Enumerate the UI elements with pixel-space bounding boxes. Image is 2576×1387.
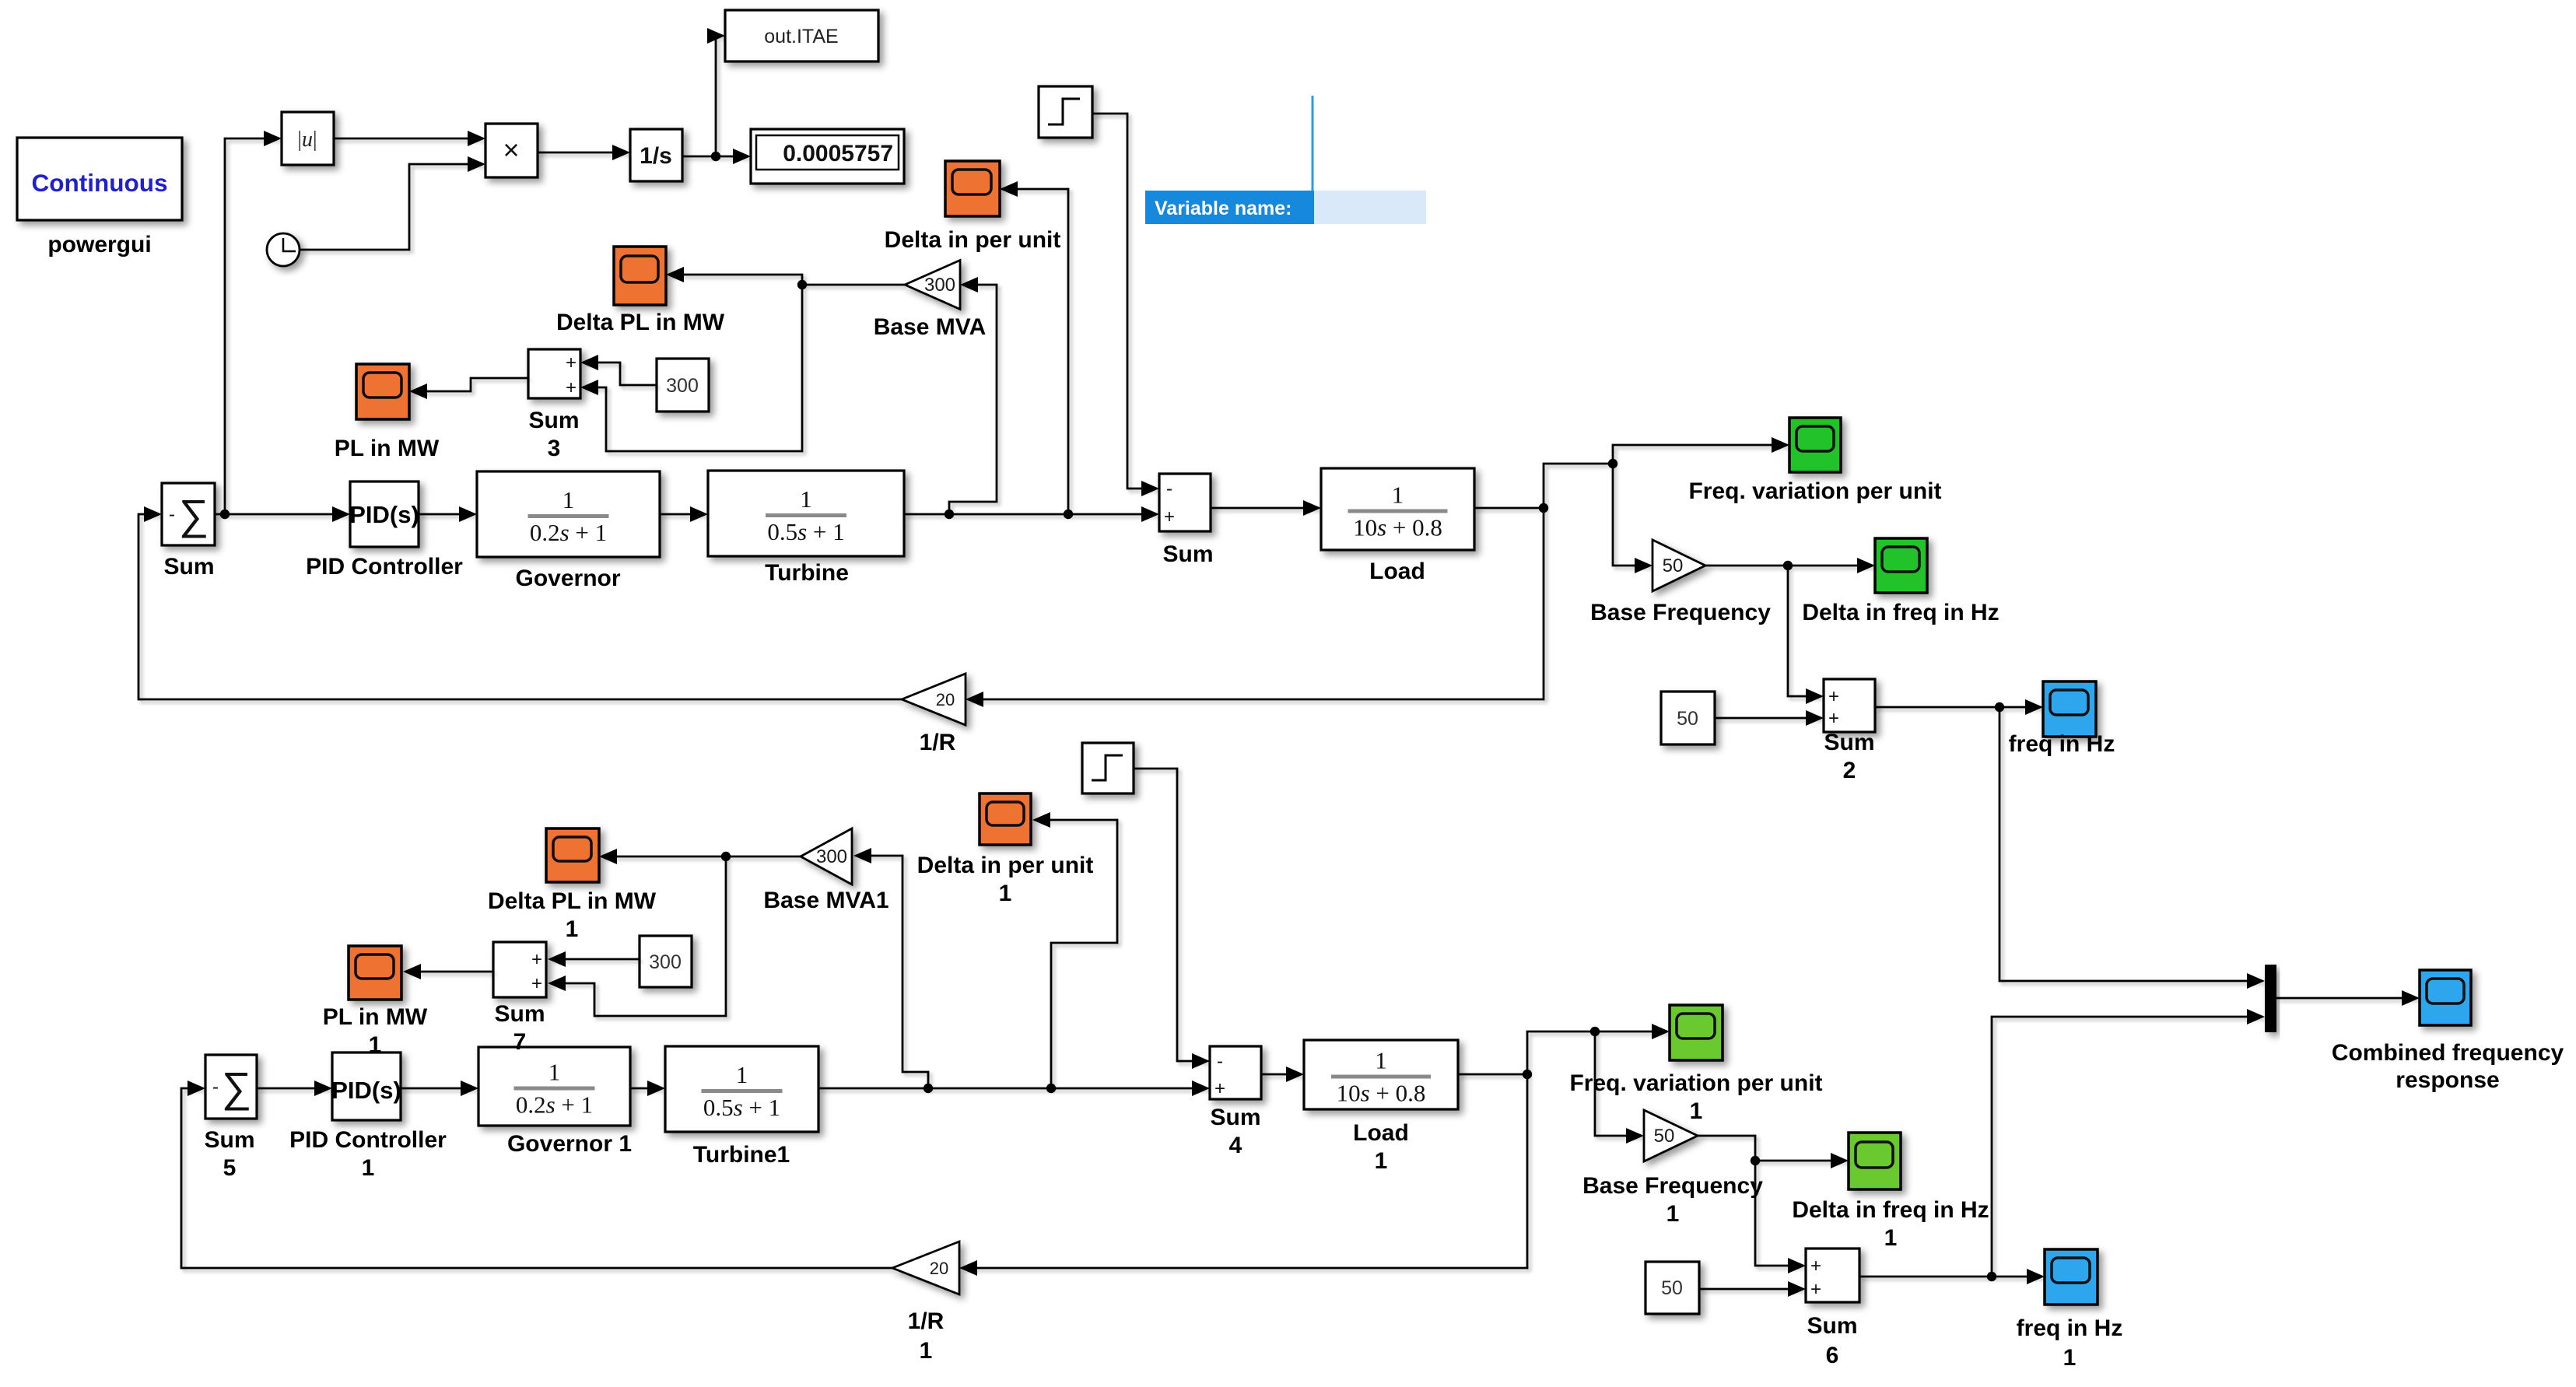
node junction gain out — [1783, 561, 1793, 570]
wire to Freq variation per unit scope — [1613, 437, 1789, 464]
wire junction up to Base MVA1 gain input — [853, 848, 928, 1088]
wire Sum 5 to PID Controller 1 — [257, 1081, 332, 1096]
constant 300 (bottom) — [640, 936, 692, 987]
constant 300 — [657, 359, 709, 412]
display block 0.0005757 — [751, 129, 904, 184]
node junction turbine1 out 2 — [1046, 1084, 1056, 1093]
node junction turbine out 1 — [945, 510, 954, 519]
svg-text:300: 300 — [666, 375, 699, 397]
node junction Base MVA1 out — [721, 852, 731, 861]
node junction gain 1 out — [1751, 1156, 1760, 1165]
wire Load 1 output junctions — [1458, 1074, 1527, 1076]
svg-text:10s + 0.8: 10s + 0.8 — [1337, 1080, 1426, 1107]
svg-text:1/R: 1/R — [908, 1308, 945, 1334]
svg-text:1: 1 — [920, 1338, 933, 1364]
svg-text:Load: Load — [1353, 1120, 1409, 1146]
node junction scope/gain branch bottom — [1590, 1027, 1600, 1036]
scope Freq variation per unit (green) — [1688, 418, 1941, 504]
svg-text:powergui: powergui — [47, 232, 151, 257]
wire up to scope branch — [1544, 464, 1613, 508]
svg-text:+: + — [1214, 1078, 1225, 1099]
mux combiner bar — [2265, 965, 2276, 1032]
wire Turbine to Sum — [904, 506, 1159, 522]
svg-text:0.2s + 1: 0.2s + 1 — [530, 519, 607, 546]
load transfer function 1/(10s+0.8) — [1321, 468, 1474, 584]
wire Sum 2 to freq in Hz scope — [1875, 699, 2043, 715]
wire up to scope branch bottom — [1527, 1024, 1670, 1074]
wire Base Frequency gain to Delta in freq scope — [1705, 558, 1875, 573]
scope PL in MW 1 (orange) — [323, 946, 428, 1058]
svg-text:Delta in freq in Hz: Delta in freq in Hz — [1792, 1197, 1989, 1223]
wire junction up to Delta in per unit scope — [1000, 181, 1068, 514]
svg-text:Sum: Sum — [528, 408, 579, 433]
gain 1/R 20 (points left) — [902, 674, 966, 755]
svg-text:Delta PL in MW: Delta PL in MW — [556, 310, 725, 335]
svg-text:freq in Hz: freq in Hz — [2017, 1315, 2123, 1341]
wire constant 300 to Sum 3 upper input — [580, 355, 657, 385]
svg-text:1: 1 — [1375, 1047, 1387, 1074]
gain 1/R 1 20 (points left) — [892, 1242, 959, 1364]
wire junction up to Delta in per unit 1 scope — [1032, 812, 1117, 1088]
svg-text:0.5s + 1: 0.5s + 1 — [703, 1094, 780, 1121]
powergui block (Continuous) — [17, 138, 182, 257]
svg-text:20: 20 — [930, 1259, 948, 1278]
svg-text:Sum: Sum — [494, 1001, 545, 1027]
wire constant 50 to Sum 2 — [1715, 710, 1824, 726]
sum block Sum (top right, minus/plus) — [1159, 474, 1214, 567]
sum block Sum 6 — [1806, 1249, 1859, 1368]
svg-text:out.ITAE: out.ITAE — [764, 26, 838, 47]
wire junction down to Sum 2 — [1788, 566, 1824, 704]
constant 50 (bottom) — [1645, 1262, 1699, 1314]
scope Delta in freq in Hz (green) — [1802, 538, 1999, 625]
svg-text:PL in MW: PL in MW — [335, 436, 440, 461]
svg-text:PID(s): PID(s) — [331, 1077, 401, 1104]
wire Governor to Turbine — [660, 506, 708, 522]
node junction Sum 6 out — [1987, 1272, 1996, 1281]
sum block Sum 3 — [528, 349, 580, 461]
svg-text:Governor: Governor — [515, 566, 620, 591]
turbine1 transfer function — [665, 1046, 818, 1168]
svg-text:response: response — [2396, 1067, 2499, 1093]
wire Sum 7 to PL in MW 1 scope — [403, 964, 493, 979]
node junction turbine out 2 — [1064, 510, 1073, 519]
wire Load output junctions — [1474, 507, 1544, 510]
wire product to integrator 1/s — [538, 145, 630, 160]
svg-text:Combined frequency: Combined frequency — [2332, 1040, 2564, 1066]
sum block Sum 2 — [1824, 679, 1875, 783]
svg-text:Variable name:: Variable name: — [1155, 198, 1292, 219]
svg-text:∑: ∑ — [179, 492, 209, 538]
svg-text:Load: Load — [1369, 559, 1425, 584]
scope Delta PL in MW (orange) — [556, 247, 725, 335]
abs block |u| — [282, 112, 334, 165]
svg-text:×: × — [503, 134, 519, 166]
svg-text:1: 1 — [362, 1155, 375, 1181]
svg-text:Turbine1: Turbine1 — [693, 1142, 790, 1168]
svg-text:1/s: 1/s — [640, 143, 672, 169]
svg-text:6: 6 — [1826, 1343, 1839, 1368]
svg-text:1/R: 1/R — [920, 730, 956, 755]
wire abs to product — [334, 131, 485, 146]
svg-text:1: 1 — [369, 1032, 382, 1058]
svg-text:50: 50 — [1654, 1126, 1675, 1147]
constant 50 — [1661, 692, 1715, 744]
node junction scope/gain branch — [1608, 459, 1617, 468]
wire constant 50 to Sum 6 — [1699, 1281, 1806, 1297]
wire feedback down to 1/R 1 gain — [959, 1074, 1527, 1276]
svg-text:PID Controller: PID Controller — [289, 1127, 447, 1153]
wire junction down to Sum 3 lower input — [580, 285, 802, 451]
node junction Sum 2 out — [1995, 702, 2004, 712]
product block (multiply) — [485, 124, 538, 177]
svg-text:300: 300 — [649, 951, 682, 973]
wire junction up to Abs block — [225, 131, 282, 514]
svg-text:1: 1 — [563, 486, 575, 513]
turbine transfer function 1/(0.5s+1) — [708, 471, 904, 586]
svg-text:Delta in per unit: Delta in per unit — [885, 227, 1061, 253]
wire Sum 3 to PL in MW scope — [409, 378, 528, 399]
svg-text:1: 1 — [736, 1061, 748, 1088]
svg-text:Sum: Sum — [1210, 1105, 1260, 1130]
svg-text:Governor 1: Governor 1 — [507, 1131, 632, 1157]
load 1 transfer function — [1304, 1040, 1458, 1174]
svg-text:1: 1 — [800, 485, 812, 513]
step block 1 — [1082, 743, 1134, 793]
svg-text:300: 300 — [816, 846, 847, 867]
svg-text:Delta in freq in Hz: Delta in freq in Hz — [1802, 600, 1999, 625]
outport block out.ITAE — [725, 10, 878, 61]
node junction Load out — [1539, 503, 1548, 513]
svg-text:+: + — [1828, 708, 1839, 729]
clock block — [267, 233, 300, 266]
wire Sum to PID Controller — [215, 506, 350, 522]
sum block Sum (sigma) — [162, 483, 215, 580]
node junction turbine1 out 1 — [924, 1084, 933, 1093]
scope Delta in per unit 1 (orange) — [917, 793, 1094, 906]
svg-text:-: - — [1166, 478, 1172, 499]
svg-text:4: 4 — [1229, 1133, 1242, 1158]
svg-text:+: + — [1828, 686, 1839, 707]
svg-text:7: 7 — [513, 1029, 527, 1055]
wire Sum(sigma) PID to Governor etc main row — [419, 506, 477, 522]
wire junction up to Base MVA gain input — [949, 277, 997, 514]
svg-text:1: 1 — [1392, 482, 1404, 509]
wire constant 300 to Sum 7 upper input — [548, 951, 640, 967]
svg-text:1: 1 — [566, 916, 579, 942]
svg-text:Sum: Sum — [163, 554, 214, 580]
svg-text:-: - — [169, 504, 175, 525]
svg-text:Turbine: Turbine — [765, 560, 849, 586]
svg-text:PID Controller: PID Controller — [306, 554, 463, 580]
svg-text:+: + — [566, 377, 577, 398]
svg-text:0.5s + 1: 0.5s + 1 — [767, 518, 844, 545]
svg-text:Delta in per unit: Delta in per unit — [917, 853, 1094, 878]
wire mux to Combined frequency response scope — [2276, 990, 2420, 1006]
svg-text:+: + — [531, 973, 542, 994]
wire junction down to mux input 1 — [1999, 707, 2265, 989]
svg-text:50: 50 — [1663, 555, 1684, 576]
svg-text:5: 5 — [223, 1155, 237, 1181]
wire junction down to Sum 7 lower input — [548, 856, 726, 1016]
svg-text:Base MVA: Base MVA — [874, 314, 987, 340]
wire 1/s to Display — [682, 149, 751, 164]
wire junction up to out.ITAE — [707, 28, 725, 156]
svg-text:Base Frequency: Base Frequency — [1590, 600, 1771, 625]
governor 1 transfer function — [478, 1047, 632, 1157]
svg-text:PID(s): PID(s) — [349, 501, 419, 528]
sum block Sum 5 (sigma) — [204, 1055, 257, 1181]
governor transfer function 1/(0.2s+1) — [477, 471, 660, 591]
svg-text:∑: ∑ — [222, 1064, 252, 1111]
tooltip entry field box — [1314, 191, 1426, 224]
gain Base Frequency 1 50 (points right) — [1582, 1110, 1763, 1227]
node junction Load 1 out — [1523, 1070, 1532, 1079]
svg-text:+: + — [1164, 506, 1175, 527]
svg-text:50: 50 — [1661, 1277, 1683, 1299]
svg-text:+: + — [1810, 1256, 1821, 1277]
scope Freq variation per unit 1 (green) — [1569, 1005, 1822, 1124]
wire down to Base Frequency 1 gain — [1595, 1031, 1644, 1144]
wire feedback 1/R to Sum — [138, 514, 902, 699]
svg-text:3: 3 — [548, 436, 561, 461]
node junction Base MVA out — [797, 280, 807, 289]
svg-text:1: 1 — [1375, 1148, 1388, 1174]
svg-text:0.0005757: 0.0005757 — [783, 141, 893, 166]
tooltip Variable name box — [1145, 191, 1314, 224]
svg-text:Continuous: Continuous — [32, 169, 168, 197]
svg-text:+: + — [531, 949, 542, 970]
node junction after Sum — [220, 510, 230, 519]
svg-text:1: 1 — [2063, 1345, 2077, 1371]
scope Delta PL in MW 1 (orange) — [488, 828, 657, 942]
gain Base MVA 300 (points left) — [874, 261, 987, 341]
scope Delta in freq in Hz 1 (green) — [1792, 1133, 1989, 1251]
wire step down to Sum minus input — [1092, 114, 1159, 496]
step block — [1039, 86, 1092, 138]
wire feedback 1/R 1 to Sum 5 — [181, 1088, 892, 1268]
scope Combined frequency response (blue) — [2332, 970, 2564, 1093]
sum block Sum 4 — [1210, 1046, 1261, 1158]
svg-text:20: 20 — [936, 690, 955, 709]
wire PID 1 to Governor 1 — [401, 1081, 478, 1096]
gain Base Frequency 50 (points right) — [1590, 540, 1771, 625]
tooltip cursor line — [1312, 96, 1314, 191]
wire Sum to Load — [1211, 500, 1321, 516]
wire junction up to mux input 2 — [1992, 1009, 2265, 1277]
wire feedback down to 1/R gain — [966, 508, 1544, 707]
svg-text:Base MVA1: Base MVA1 — [763, 888, 888, 913]
svg-text:10s + 0.8: 10s + 0.8 — [1353, 514, 1442, 541]
svg-text:Sum: Sum — [204, 1127, 254, 1153]
svg-text:freq in Hz: freq in Hz — [2009, 731, 2115, 757]
wire clock to product — [300, 156, 485, 250]
wire Base Frequency 1 to Delta in freq 1 scope — [1698, 1136, 1849, 1168]
wire Governor 1 to Turbine1 — [630, 1081, 665, 1096]
scope Delta in per unit (orange) — [885, 161, 1061, 253]
svg-text:1: 1 — [1690, 1098, 1703, 1124]
svg-text:-: - — [1217, 1051, 1223, 1072]
wire Base MVA to Delta PL scope and Sum 3 — [802, 284, 905, 286]
svg-text:Sum: Sum — [1162, 541, 1213, 567]
scope freq in Hz 1 (blue) — [2017, 1249, 2123, 1371]
svg-text:Base Frequency: Base Frequency — [1582, 1173, 1763, 1199]
wire step 1 down to Sum 4 minus input — [1134, 769, 1210, 1069]
wire junction to Delta PL in MW scope — [666, 267, 802, 285]
svg-text:Freq. variation per unit: Freq. variation per unit — [1688, 478, 1941, 504]
wire down to Base Frequency gain — [1613, 464, 1652, 573]
svg-text:1: 1 — [999, 881, 1012, 906]
svg-text:1: 1 — [1667, 1201, 1680, 1227]
wire Sum 4 to Load 1 — [1261, 1067, 1304, 1082]
gain Base MVA1 300 (points left) — [763, 828, 888, 913]
scope freq in Hz (blue) — [2009, 681, 2115, 757]
svg-text:0.2s + 1: 0.2s + 1 — [516, 1091, 593, 1119]
scope PL in MW (orange) — [335, 364, 440, 461]
integrator block 1/s — [630, 129, 682, 181]
wire Turbine1 to Sum 4 — [818, 1081, 1210, 1096]
svg-text:|u|: |u| — [297, 128, 317, 152]
node junction after 1/s — [711, 152, 720, 161]
svg-text:1: 1 — [1884, 1225, 1898, 1251]
svg-text:1: 1 — [548, 1059, 561, 1086]
svg-text:Sum: Sum — [1807, 1313, 1857, 1339]
svg-text:-: - — [212, 1077, 219, 1098]
svg-text:2: 2 — [1843, 758, 1856, 783]
svg-text:+: + — [1810, 1279, 1821, 1300]
pid controller block PID(s) 1 — [289, 1053, 447, 1181]
svg-text:300: 300 — [924, 275, 955, 296]
svg-text:Freq. variation per unit: Freq. variation per unit — [1569, 1070, 1822, 1096]
sum block Sum 7 — [493, 942, 546, 1055]
svg-text:PL in MW: PL in MW — [323, 1004, 428, 1030]
wire Base MVA1 out to scope — [599, 849, 801, 864]
wire Sum 6 to freq in Hz 1 scope — [1859, 1269, 2045, 1284]
svg-text:Sum: Sum — [1824, 730, 1874, 755]
wire junction down to Sum 6 — [1755, 1161, 1806, 1273]
pid controller block PID(s) — [306, 482, 463, 580]
svg-text:+: + — [566, 352, 577, 373]
svg-text:Delta PL in MW: Delta PL in MW — [488, 888, 657, 914]
svg-text:50: 50 — [1677, 708, 1698, 730]
